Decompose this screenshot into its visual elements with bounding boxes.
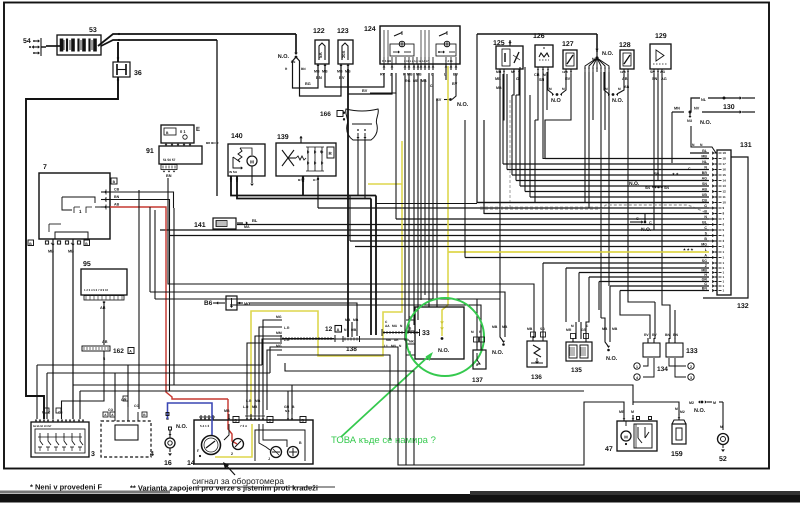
row y385 bbox=[73, 385, 633, 405]
regulator R bbox=[327, 147, 334, 158]
139 bottom pins bbox=[302, 176, 304, 182]
wire A to 131 bbox=[465, 257, 709, 259]
drops to N.O. and 133 134 bbox=[598, 282, 600, 311]
N.O. distribution node bbox=[477, 33, 597, 35]
svg-text:BN: BN bbox=[114, 195, 120, 199]
svg-text:N.O.: N.O. bbox=[694, 408, 706, 414]
wires 130 drop bbox=[671, 112, 673, 163]
wire SN to 131 bbox=[520, 185, 709, 187]
wire box7 pin2 down bbox=[72, 249, 74, 419]
svg-text:134: 134 bbox=[657, 366, 668, 373]
svg-text:A: A bbox=[129, 350, 132, 354]
svg-text:RV: RV bbox=[652, 333, 657, 337]
svg-text:J: J bbox=[268, 457, 270, 461]
svg-text:56 55 50 30 INT: 56 55 50 30 INT bbox=[33, 425, 52, 428]
wire N to 131 bbox=[507, 169, 709, 171]
svg-text:SN: SN bbox=[654, 172, 659, 176]
svg-text:NL: NL bbox=[701, 98, 707, 102]
svg-text:GR: GR bbox=[702, 277, 708, 281]
svg-text:BN: BN bbox=[301, 67, 306, 71]
svg-text:CB: CB bbox=[114, 188, 120, 192]
svg-text:★ ★ ★: ★ ★ ★ bbox=[682, 248, 693, 252]
diode bridge bbox=[307, 147, 309, 171]
svg-text:★ ★: ★ ★ bbox=[671, 172, 679, 176]
svg-text:MB: MB bbox=[502, 325, 508, 329]
svg-text:12.0: 12.0 bbox=[620, 70, 626, 74]
footnote underline artifact bbox=[196, 486, 335, 488]
yellow wire inside cluster 14 bbox=[215, 424, 252, 457]
svg-text:BV: BV bbox=[436, 98, 442, 102]
svg-text:15: 15 bbox=[723, 173, 727, 177]
svg-text:1: 1 bbox=[636, 365, 638, 369]
47 pins bbox=[623, 415, 625, 421]
svg-text:1: 1 bbox=[723, 284, 725, 288]
svg-text:MB: MB bbox=[351, 328, 357, 332]
svg-text:2: 2 bbox=[690, 365, 692, 369]
svg-text:B: B bbox=[704, 237, 707, 241]
svg-text:MA: MA bbox=[244, 225, 250, 229]
svg-text:BL: BL bbox=[702, 149, 708, 153]
svg-text:MG: MG bbox=[392, 324, 398, 328]
svg-text:B: B bbox=[113, 180, 116, 184]
svg-text:95: 95 bbox=[83, 261, 91, 268]
svg-text:1: 1 bbox=[723, 261, 725, 265]
svg-text:52: 52 bbox=[719, 456, 727, 463]
svg-text:RV: RV bbox=[380, 73, 386, 77]
wire BL to 131 bbox=[690, 152, 709, 154]
wire H to 131 bbox=[589, 276, 709, 278]
svg-text:M2: M2 bbox=[689, 401, 694, 405]
svg-text:N.O.: N.O. bbox=[492, 350, 504, 356]
svg-text:N.O.: N.O. bbox=[700, 120, 712, 126]
svg-text:11: 11 bbox=[723, 195, 727, 199]
footnote arrow bbox=[225, 464, 235, 475]
svg-text:M2: M2 bbox=[680, 410, 685, 414]
svg-text:AG: AG bbox=[702, 176, 708, 180]
svg-text:N.O.: N.O. bbox=[457, 102, 469, 108]
wire S to 131 bbox=[170, 235, 709, 237]
wire bus drop 217 bbox=[216, 40, 218, 196]
svg-text:MG: MG bbox=[276, 315, 282, 319]
wire BL to 131 bbox=[237, 224, 709, 226]
svg-text:NV: NV bbox=[694, 107, 700, 111]
wire C to 131 bbox=[160, 229, 709, 231]
strip 12 left wires bbox=[263, 320, 282, 414]
svg-text:N.O.: N.O. bbox=[176, 424, 188, 430]
166 pins bbox=[357, 133, 359, 140]
svg-text:* Neni v provedeni F: * Neni v provedeni F bbox=[30, 483, 103, 492]
svg-text:SN: SN bbox=[664, 186, 669, 190]
svg-text:47: 47 bbox=[605, 446, 613, 453]
svg-text:1: 1 bbox=[723, 256, 725, 260]
wire NL to 131 bbox=[503, 163, 709, 165]
svg-text:B+: B+ bbox=[298, 178, 302, 182]
svg-text:129: 129 bbox=[655, 33, 667, 40]
bottom band rows bbox=[36, 365, 38, 419]
svg-text:12.0: 12.0 bbox=[562, 70, 568, 74]
svg-text:MB: MB bbox=[612, 327, 618, 331]
wire N to 131 bbox=[396, 218, 709, 220]
svg-text:54: 54 bbox=[23, 38, 31, 45]
svg-text:1: 1 bbox=[723, 280, 725, 284]
svg-text:36: 36 bbox=[134, 70, 142, 77]
svg-text:MB: MB bbox=[224, 409, 230, 413]
svg-text:BR: BR bbox=[702, 171, 708, 175]
red wire into gauge 2 bbox=[228, 399, 237, 444]
svg-text:N: N bbox=[399, 344, 402, 348]
green arrow bbox=[341, 354, 431, 437]
svg-text:BR BN R: BR BN R bbox=[206, 141, 219, 145]
svg-text:N.O: N.O bbox=[551, 98, 562, 104]
comp 3 top pins bbox=[35, 419, 37, 422]
svg-text:A: A bbox=[704, 253, 707, 257]
svg-text:1: 1 bbox=[723, 289, 725, 293]
svg-text:N: N bbox=[704, 165, 707, 169]
wire CB to 131 bbox=[477, 202, 709, 204]
svg-text:CO: CO bbox=[134, 404, 139, 408]
svg-text:H: H bbox=[704, 273, 707, 277]
wire SG to 131 bbox=[543, 262, 709, 264]
svg-text:G: G bbox=[704, 204, 707, 208]
svg-text:159: 159 bbox=[671, 451, 683, 458]
wire CB from box7 bbox=[110, 192, 174, 208]
comp 4 feeds bbox=[114, 373, 116, 416]
wire 53 down to 36 bbox=[117, 42, 119, 62]
svg-text:MB: MB bbox=[492, 325, 498, 329]
N.O. node left of fuses bbox=[295, 34, 297, 53]
svg-text:14: 14 bbox=[723, 179, 727, 183]
svg-text:8: 8 bbox=[723, 212, 725, 216]
svg-text:AB: AB bbox=[114, 203, 120, 207]
svg-text:2: 2 bbox=[231, 452, 233, 456]
wire 91 down bbox=[167, 178, 169, 230]
svg-text:1: 1 bbox=[723, 271, 725, 275]
connector strip C bbox=[383, 332, 419, 334]
svg-text:MB: MB bbox=[337, 70, 343, 74]
svg-text:MB: MB bbox=[416, 73, 422, 77]
svg-text:GR: GR bbox=[581, 328, 587, 332]
wire MG to 131 bbox=[355, 246, 709, 248]
scanner black band bottom bbox=[0, 494, 800, 503]
svg-text:MB: MB bbox=[619, 410, 625, 414]
gauge pin drops bbox=[499, 74, 501, 330]
svg-text:MB: MB bbox=[353, 318, 359, 322]
wire 162 down to comp 3 bbox=[62, 351, 105, 419]
blue wire bbox=[168, 403, 213, 419]
svg-text:MB: MB bbox=[496, 70, 502, 74]
svg-text:7 3 4: 7 3 4 bbox=[240, 424, 247, 428]
svg-text:AB: AB bbox=[100, 306, 106, 310]
cluster top pins group1 bbox=[200, 415, 202, 420]
svg-text:+: + bbox=[51, 242, 53, 246]
svg-text:SN: SN bbox=[645, 186, 650, 190]
svg-text:BN: BN bbox=[316, 75, 322, 80]
screened cable (gray dashed) bbox=[480, 208, 600, 210]
yellow wire L from 124 bbox=[447, 66, 449, 252]
139 top pin bbox=[300, 136, 302, 143]
wire BN from box7 bbox=[110, 200, 170, 392]
svg-text:BG: BG bbox=[305, 82, 311, 86]
svg-text:B6: B6 bbox=[204, 300, 213, 307]
svg-text:4: 4 bbox=[723, 234, 725, 238]
svg-text:MB: MB bbox=[252, 405, 258, 409]
svg-text:M: M bbox=[624, 435, 628, 440]
svg-text:BV: BV bbox=[339, 75, 345, 80]
svg-text:E: E bbox=[196, 126, 200, 133]
wire B6 to 138 bbox=[249, 303, 357, 336]
svg-text:3 15 1 4 5 6 12 14 17: 3 15 1 4 5 6 12 14 17 bbox=[404, 60, 429, 63]
svg-text:18: 18 bbox=[723, 157, 727, 161]
svg-text:BL: BL bbox=[252, 218, 258, 223]
svg-text:1: 1 bbox=[723, 266, 725, 270]
bus y465 to rear bbox=[398, 402, 624, 465]
svg-text:7: 7 bbox=[723, 217, 725, 221]
svg-text:M: M bbox=[571, 324, 574, 328]
svg-text:136: 136 bbox=[531, 374, 542, 381]
wire BL from 141 bbox=[237, 224, 248, 226]
svg-text:133: 133 bbox=[686, 348, 698, 355]
wire UB to 131 bbox=[530, 196, 709, 198]
svg-text:M: M bbox=[250, 160, 254, 165]
svg-text:137: 137 bbox=[472, 377, 483, 384]
thick charge trunk wires bbox=[231, 182, 376, 196]
svg-text:M: M bbox=[511, 70, 514, 74]
wire B to 131 bbox=[484, 213, 709, 215]
svg-text:124: 124 bbox=[364, 26, 376, 33]
134 circled pins bbox=[643, 358, 648, 366]
91 connector strip bbox=[161, 165, 177, 170]
svg-text:MG: MG bbox=[701, 242, 707, 246]
svg-text:N: N bbox=[700, 143, 703, 147]
svg-text:+: + bbox=[71, 242, 73, 246]
svg-text:12: 12 bbox=[325, 326, 333, 333]
svg-text:12: 12 bbox=[723, 190, 727, 194]
svg-text:17: 17 bbox=[723, 162, 727, 166]
wire 95 to 162 bbox=[103, 301, 105, 345]
svg-text:0 1: 0 1 bbox=[180, 129, 186, 134]
svg-text:5 4 1 3: 5 4 1 3 bbox=[200, 424, 210, 428]
svg-text:MB: MB bbox=[701, 268, 707, 272]
wire AB red from box7 bbox=[110, 207, 228, 399]
svg-text:122: 122 bbox=[313, 28, 325, 35]
svg-text:B: B bbox=[302, 419, 305, 423]
svg-text:R: R bbox=[285, 67, 288, 71]
svg-text:AB: AB bbox=[624, 85, 630, 89]
svg-text:L.R: L.R bbox=[243, 405, 249, 409]
svg-text:4: 4 bbox=[636, 376, 638, 380]
comp 3 contacts bbox=[39, 433, 41, 441]
svg-text:MB: MB bbox=[496, 86, 502, 90]
svg-text:3: 3 bbox=[723, 239, 725, 243]
svg-text:N.O.: N.O. bbox=[612, 98, 624, 104]
svg-text:127: 127 bbox=[562, 41, 574, 48]
svg-text:162: 162 bbox=[113, 348, 124, 355]
svg-text:BV: BV bbox=[362, 89, 368, 93]
svg-text:N: N bbox=[692, 143, 695, 147]
svg-text:13: 13 bbox=[723, 184, 727, 188]
svg-text:BN: BN bbox=[166, 174, 172, 178]
cluster pins group2 bbox=[246, 414, 248, 420]
wire GR to 131 bbox=[599, 281, 709, 283]
svg-text:MK: MK bbox=[409, 340, 415, 344]
svg-text:M: M bbox=[592, 57, 595, 61]
wire A from 53 down right side bbox=[477, 34, 709, 203]
wire BR to 131 bbox=[512, 174, 709, 176]
svg-text:6: 6 bbox=[723, 223, 725, 227]
svg-text:RG: RG bbox=[405, 79, 411, 83]
svg-text:53: 53 bbox=[89, 27, 97, 34]
fan node drops bbox=[584, 72, 586, 203]
cluster pins MB bbox=[228, 414, 230, 420]
svg-text:L.R: L.R bbox=[246, 399, 252, 403]
svg-text:131: 131 bbox=[740, 142, 752, 149]
stator windings bbox=[282, 150, 288, 166]
svg-text:AB: AB bbox=[102, 340, 108, 344]
svg-text:L.R: L.R bbox=[284, 326, 290, 330]
svg-text:N: N bbox=[400, 324, 403, 328]
svg-text:16: 16 bbox=[164, 460, 172, 467]
yellow stub bbox=[368, 183, 402, 185]
instrument drop wires staircase bbox=[544, 120, 546, 159]
svg-text:N.O.: N.O. bbox=[602, 51, 614, 57]
cluster feeds from 12 bbox=[246, 410, 248, 414]
drops to components 135 136 bbox=[542, 263, 544, 338]
svg-text:139: 139 bbox=[277, 134, 289, 141]
svg-text:MB: MB bbox=[255, 399, 261, 403]
wire G to 131 bbox=[610, 285, 709, 287]
gauge J bbox=[271, 447, 282, 458]
svg-text:SN: SN bbox=[650, 70, 655, 74]
svg-text:SN: SN bbox=[652, 77, 658, 81]
166 pin drops bbox=[357, 140, 359, 196]
cluster pins group3 bbox=[287, 414, 289, 420]
svg-text:BN: BN bbox=[702, 286, 708, 290]
svg-text:N.O.: N.O. bbox=[438, 348, 450, 354]
svg-text:** Varianta zapojeni pro verze: ** Varianta zapojeni pro verze s jisteni… bbox=[130, 484, 318, 493]
33 left pins bbox=[406, 319, 415, 321]
svg-text:141: 141 bbox=[194, 222, 206, 229]
svg-text:CB: CB bbox=[702, 198, 708, 202]
138 thick feed bbox=[347, 69, 349, 337]
wire G to 131 bbox=[318, 207, 709, 209]
svg-text:M: M bbox=[720, 425, 723, 429]
140 pins bbox=[230, 176, 232, 182]
svg-text:C: C bbox=[704, 226, 707, 230]
svg-text:N.O.: N.O. bbox=[629, 181, 640, 187]
svg-text:C: C bbox=[48, 411, 51, 415]
svg-text:CB: CB bbox=[534, 73, 540, 77]
svg-text:3: 3 bbox=[690, 376, 692, 380]
wire 53 to right bus bbox=[98, 34, 296, 46]
D+ wire bbox=[317, 182, 319, 208]
svg-text:C: C bbox=[586, 324, 589, 328]
gauge 2 bbox=[233, 439, 244, 450]
svg-text:MR: MR bbox=[566, 328, 572, 332]
wire B to 131 bbox=[350, 240, 709, 242]
33 feed wires left bbox=[380, 320, 406, 335]
comp 4 pins bbox=[114, 416, 116, 421]
svg-text:20A: 20A bbox=[341, 51, 346, 58]
relay 124 pins bbox=[383, 64, 385, 70]
wire AG to 131 bbox=[516, 180, 709, 182]
svg-text:BN: BN bbox=[673, 333, 678, 337]
svg-text:MB: MB bbox=[527, 327, 533, 331]
svg-text:BN: BN bbox=[665, 333, 670, 337]
svg-text:33: 33 bbox=[422, 330, 430, 337]
green annotation circle bbox=[406, 298, 484, 376]
svg-text:1: 1 bbox=[723, 275, 725, 279]
svg-text:ТОВА къде се намира ?: ТОВА къде се намира ? bbox=[331, 435, 436, 446]
svg-text:140: 140 bbox=[231, 133, 243, 140]
box 7 bottom pins bbox=[52, 239, 54, 249]
svg-text:R: R bbox=[329, 151, 333, 156]
speedometer bbox=[202, 436, 221, 455]
N.O. node b bbox=[604, 72, 609, 94]
svg-text:MB: MB bbox=[407, 73, 413, 77]
yellow wire into 33 bbox=[442, 252, 448, 336]
svg-text:BL: BL bbox=[702, 220, 708, 224]
svg-text:19: 19 bbox=[723, 151, 727, 155]
svg-text:NU: NU bbox=[687, 119, 693, 123]
svg-text:NL: NL bbox=[702, 160, 708, 164]
svg-text:M: M bbox=[549, 87, 552, 91]
gauge B bbox=[288, 447, 299, 458]
svg-text:MM: MM bbox=[276, 331, 282, 335]
svg-text:F: F bbox=[197, 449, 200, 453]
svg-text:IN SU: IN SU bbox=[229, 170, 237, 174]
wires fuse feeds bbox=[293, 57, 319, 88]
svg-text:N.O.: N.O. bbox=[606, 356, 618, 362]
wires rows 339-371 bbox=[277, 355, 390, 440]
svg-text:BV: BV bbox=[452, 82, 458, 86]
svg-text:RV: RV bbox=[644, 333, 649, 337]
svg-text:5A: 5A bbox=[318, 51, 323, 58]
svg-text:N: N bbox=[704, 215, 707, 219]
svg-text:M: M bbox=[471, 330, 474, 334]
svg-text:132: 132 bbox=[737, 303, 749, 310]
svg-text:3: 3 bbox=[91, 451, 95, 458]
svg-text:A: A bbox=[337, 328, 340, 332]
svg-text:MB: MB bbox=[701, 154, 707, 158]
wire AB to 131 bbox=[525, 191, 709, 193]
svg-text:130: 130 bbox=[723, 104, 735, 111]
svg-text:B: B bbox=[235, 419, 238, 423]
svg-text:166: 166 bbox=[320, 111, 331, 118]
svg-text:7: 7 bbox=[43, 164, 47, 171]
svg-text:C: C bbox=[688, 167, 691, 171]
svg-text:N.O.: N.O. bbox=[278, 54, 290, 60]
center wire bundle verticals bbox=[370, 73, 396, 93]
svg-text:7 4 11: 7 4 11 bbox=[445, 59, 453, 63]
svg-text:AG: AG bbox=[660, 70, 665, 74]
inner gauge box bbox=[255, 430, 305, 461]
svg-text:AB: AB bbox=[622, 77, 628, 81]
svg-text:128: 128 bbox=[619, 42, 631, 49]
wire L to 131 bbox=[448, 251, 709, 253]
svg-text:SN: SN bbox=[702, 182, 707, 186]
svg-text:MN: MN bbox=[674, 107, 680, 111]
box 7 internal relay bbox=[62, 197, 95, 203]
svg-text:B: B bbox=[299, 441, 302, 445]
svg-text:SG: SG bbox=[702, 259, 707, 263]
svg-text:M: M bbox=[618, 87, 621, 91]
svg-text:B: B bbox=[409, 327, 412, 331]
svg-text:MB: MB bbox=[421, 79, 427, 83]
svg-text:5: 5 bbox=[723, 228, 725, 232]
svg-text:16: 16 bbox=[723, 168, 727, 172]
svg-text:SN: SN bbox=[539, 78, 545, 82]
svg-text:2: 2 bbox=[723, 245, 725, 249]
